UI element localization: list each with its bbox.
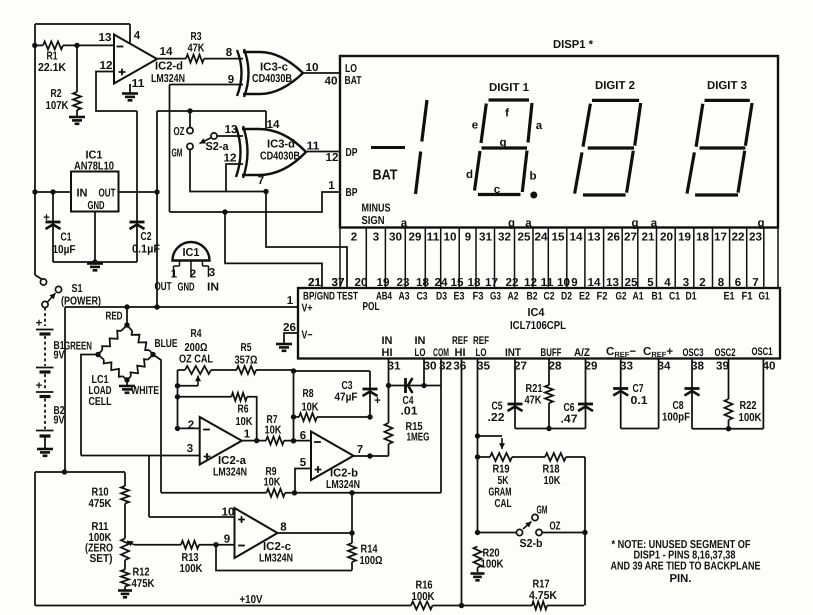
svg-text:27: 27 bbox=[514, 361, 527, 373]
IC4 ICL7106CPL box bbox=[298, 288, 780, 359]
digit 3 seven segment bbox=[687, 100, 752, 195]
wire IC3-d pin 7 to IC4 pin 37 TEST bbox=[266, 192, 347, 290]
svg-text:33: 33 bbox=[620, 361, 633, 373]
svg-text:3: 3 bbox=[209, 267, 215, 279]
svg-text:R3: R3 bbox=[191, 31, 202, 43]
svg-text:30: 30 bbox=[389, 232, 402, 244]
svg-text:7: 7 bbox=[258, 175, 264, 187]
svg-text:CELL: CELL bbox=[89, 396, 112, 408]
svg-text:14: 14 bbox=[588, 277, 602, 289]
svg-text:C2: C2 bbox=[141, 231, 152, 243]
wire IC3-c pin 9 down to BP row bbox=[170, 85, 244, 213]
wire IC4 pin 35 REF LO down to S2-b bbox=[475, 359, 480, 536]
svg-text:13: 13 bbox=[606, 277, 619, 289]
potentiometer R19 5K GRAM CAL bbox=[478, 453, 546, 510]
svg-text:475K: 475K bbox=[89, 498, 113, 510]
resistor R2 107K bbox=[46, 45, 82, 116]
svg-text:f: f bbox=[505, 108, 509, 120]
svg-text:A1: A1 bbox=[633, 291, 644, 303]
digit 1 seven segment bbox=[466, 100, 543, 199]
svg-text:a: a bbox=[536, 120, 543, 132]
resistor R10 475K bbox=[89, 473, 130, 539]
svg-text:10µF: 10µF bbox=[53, 244, 76, 256]
svg-text:CAL: CAL bbox=[495, 498, 512, 510]
svg-text:R6: R6 bbox=[238, 404, 249, 416]
svg-text:10K: 10K bbox=[302, 402, 320, 414]
svg-text:26: 26 bbox=[283, 322, 296, 334]
svg-text:C3: C3 bbox=[417, 291, 428, 303]
DIGIT 1 label bbox=[489, 82, 530, 94]
svg-text:1MEG: 1MEG bbox=[407, 432, 430, 444]
svg-text:c: c bbox=[494, 184, 501, 196]
svg-text:31: 31 bbox=[479, 232, 493, 244]
svg-text:7: 7 bbox=[752, 277, 758, 289]
svg-text:200Ω: 200Ω bbox=[185, 342, 208, 354]
DIGIT 3 label bbox=[707, 80, 747, 92]
svg-text:BP: BP bbox=[346, 187, 358, 199]
battery B2 9V bbox=[36, 374, 65, 448]
svg-text:COM: COM bbox=[433, 347, 449, 359]
svg-text:12: 12 bbox=[326, 152, 339, 164]
ground at R12 bbox=[118, 591, 132, 598]
svg-text:DIGIT 1: DIGIT 1 bbox=[489, 82, 530, 94]
svg-text:DISP1 *: DISP1 * bbox=[553, 39, 593, 51]
svg-text:OSC3: OSC3 bbox=[683, 347, 704, 359]
svg-text:HI: HI bbox=[455, 347, 466, 359]
svg-text:14: 14 bbox=[160, 46, 174, 58]
wire IC2-c output pin 8 bbox=[278, 530, 355, 535]
svg-text:A2: A2 bbox=[508, 291, 519, 303]
wire BLUE down to R9 line bbox=[153, 355, 161, 493]
svg-text:C2: C2 bbox=[544, 291, 555, 303]
svg-text:31: 31 bbox=[388, 361, 402, 373]
svg-text:ICL7106CPL: ICL7106CPL bbox=[510, 320, 566, 332]
IC4 top pin numbers bbox=[308, 277, 759, 289]
svg-text:d: d bbox=[466, 169, 473, 181]
svg-text:a: a bbox=[651, 218, 658, 230]
svg-text:GREEN: GREEN bbox=[64, 341, 92, 353]
svg-text:2: 2 bbox=[699, 277, 705, 289]
svg-text:IN: IN bbox=[382, 335, 393, 347]
svg-text:C1: C1 bbox=[669, 291, 680, 303]
svg-text:OZ: OZ bbox=[174, 126, 185, 138]
display MINUS SIGN note bbox=[362, 203, 391, 228]
svg-text:TEST: TEST bbox=[337, 291, 358, 303]
capacitor C6 .47 on pin 29 bbox=[561, 359, 594, 429]
svg-text:35: 35 bbox=[477, 361, 491, 373]
svg-text:R1: R1 bbox=[47, 51, 58, 63]
svg-text:15: 15 bbox=[552, 232, 566, 244]
svg-text:R12: R12 bbox=[133, 567, 150, 579]
ground at IC1 GND bbox=[53, 212, 137, 271]
display BP input bbox=[346, 187, 358, 199]
resistor R3 47K bbox=[157, 31, 243, 63]
svg-text:23: 23 bbox=[749, 232, 762, 244]
potentiometer R4 200 OZ CAL bbox=[175, 328, 237, 431]
svg-text:D3: D3 bbox=[436, 291, 447, 303]
svg-text:IC2-d: IC2-d bbox=[155, 61, 183, 73]
display to IC4 pin matrix wires bbox=[340, 228, 778, 289]
capacitor C7 0.1 between pins 33 34 bbox=[613, 359, 658, 429]
svg-text:LM324N: LM324N bbox=[326, 479, 360, 491]
svg-text:13: 13 bbox=[225, 124, 238, 136]
svg-text:29: 29 bbox=[585, 361, 598, 373]
resistor R20 100K bbox=[474, 547, 505, 573]
svg-text:e: e bbox=[472, 120, 478, 132]
resistor R15 1MEG bbox=[385, 386, 430, 457]
svg-text:LM324N: LM324N bbox=[259, 553, 293, 565]
svg-text:23: 23 bbox=[397, 277, 410, 289]
svg-text:BAT: BAT bbox=[345, 75, 362, 87]
svg-text:5: 5 bbox=[300, 457, 307, 469]
svg-text:OSC1: OSC1 bbox=[752, 346, 773, 358]
svg-text:475K: 475K bbox=[132, 578, 156, 590]
svg-text:4: 4 bbox=[664, 277, 671, 289]
svg-text:IN: IN bbox=[415, 335, 426, 347]
resistor R9 10K bbox=[161, 466, 295, 497]
wire IC2-c feedback to pin 9 bbox=[216, 545, 352, 571]
switch S2-a with OZ / GM contacts bbox=[172, 111, 230, 160]
resistor R1 22.1K bbox=[32, 41, 114, 74]
svg-text:GM: GM bbox=[172, 148, 183, 160]
svg-text:DP: DP bbox=[346, 147, 358, 159]
svg-text:10K: 10K bbox=[236, 416, 254, 428]
svg-text:27: 27 bbox=[624, 232, 637, 244]
svg-text:IC2-b: IC2-b bbox=[330, 468, 358, 480]
op-amp IC2-a LM324N bbox=[187, 417, 251, 479]
resistor R6 10K feedback bbox=[178, 393, 257, 441]
svg-text:9V: 9V bbox=[54, 415, 65, 427]
wire IC1 OUT vertical riser and OZ net horizontal bbox=[157, 108, 266, 307]
svg-text:11: 11 bbox=[541, 277, 555, 289]
svg-text:R19: R19 bbox=[493, 464, 510, 476]
svg-text:MINUS: MINUS bbox=[362, 203, 391, 215]
wiper tap for R19 bbox=[478, 436, 506, 449]
svg-text:BLUE: BLUE bbox=[155, 338, 178, 350]
svg-text:OZ: OZ bbox=[550, 521, 561, 533]
svg-text:R17: R17 bbox=[533, 579, 550, 591]
svg-text:CD4030B: CD4030B bbox=[252, 73, 292, 85]
op-amp IC2-b LM324N bbox=[300, 430, 363, 491]
svg-text:9: 9 bbox=[465, 232, 471, 244]
svg-text:D2: D2 bbox=[561, 291, 572, 303]
svg-text:B2: B2 bbox=[527, 291, 538, 303]
svg-text:3: 3 bbox=[683, 277, 689, 289]
svg-text:13: 13 bbox=[99, 32, 112, 44]
segment letter marks above pin row bbox=[401, 218, 765, 230]
wire IC2-b output pin 7 bbox=[354, 453, 389, 458]
resistor R7 10K bbox=[242, 414, 311, 445]
IC4 bottom pin numbers bbox=[388, 361, 776, 373]
svg-text:a: a bbox=[525, 218, 532, 230]
wire S2-a pole to IC3-d pin 13 bbox=[217, 124, 243, 136]
svg-text:DIGIT 2: DIGIT 2 bbox=[595, 80, 635, 92]
svg-text:18: 18 bbox=[468, 277, 482, 289]
svg-text:40: 40 bbox=[325, 76, 338, 88]
resistor R12 475K bbox=[121, 567, 155, 591]
svg-text:IN: IN bbox=[207, 282, 219, 294]
svg-text:REF: REF bbox=[452, 335, 468, 347]
svg-text:+: + bbox=[36, 318, 43, 330]
svg-text:26: 26 bbox=[607, 232, 620, 244]
svg-text:SET): SET) bbox=[90, 553, 113, 565]
display BAT annunciator bbox=[373, 168, 398, 184]
svg-text:11: 11 bbox=[427, 232, 441, 244]
svg-text:.01: .01 bbox=[401, 406, 419, 418]
svg-text:32: 32 bbox=[439, 361, 452, 373]
svg-text:47K: 47K bbox=[525, 395, 543, 407]
svg-text:10: 10 bbox=[306, 62, 319, 74]
svg-text:S1: S1 bbox=[72, 283, 83, 295]
svg-text:13: 13 bbox=[588, 232, 601, 244]
svg-text:15: 15 bbox=[451, 277, 465, 289]
svg-text:INT: INT bbox=[505, 347, 521, 359]
svg-text:LM324N: LM324N bbox=[213, 467, 247, 479]
svg-text:OUT: OUT bbox=[99, 188, 116, 200]
svg-text:C8: C8 bbox=[673, 400, 684, 412]
svg-text:IC4: IC4 bbox=[528, 307, 546, 319]
ground at V- bbox=[276, 344, 292, 351]
wire GREEN to IC2-a pin 3 and IC2-c pin 10 bbox=[81, 355, 235, 518]
svg-text:S2-b: S2-b bbox=[520, 538, 543, 550]
capacitor C5 .22 on pin 27 bbox=[488, 359, 523, 429]
switch S1 (POWER) bbox=[35, 275, 101, 308]
wire IC2-b pin 5 to R9 node bbox=[292, 469, 311, 496]
wire IC3-d pin 14 to OZ net bbox=[265, 111, 267, 130]
digit 2 seven segment bbox=[575, 100, 641, 195]
svg-text:R22: R22 bbox=[740, 400, 757, 412]
wire joining C5 R21 C6 bbox=[515, 426, 586, 431]
svg-text:21: 21 bbox=[642, 232, 656, 244]
svg-text:R14: R14 bbox=[361, 544, 378, 556]
wire IC3-c output pin 10 to display LO BAT bbox=[303, 62, 340, 88]
svg-text:14: 14 bbox=[267, 119, 281, 131]
svg-text:1: 1 bbox=[287, 295, 294, 307]
wire S2-b right leg to rail bbox=[584, 533, 586, 606]
svg-text:g: g bbox=[508, 218, 515, 230]
svg-text:IC3-c: IC3-c bbox=[260, 62, 289, 74]
resistor R16 100K label bbox=[412, 580, 436, 604]
wire battery rail to IC1 IN bbox=[32, 189, 71, 194]
wire IC4 pin 36 REF HI down to rail bbox=[461, 359, 463, 606]
svg-text:R2: R2 bbox=[51, 88, 62, 100]
svg-text:GND: GND bbox=[88, 200, 105, 212]
svg-text:18: 18 bbox=[696, 232, 710, 244]
svg-text:357Ω: 357Ω bbox=[235, 355, 258, 367]
svg-text:1: 1 bbox=[171, 269, 178, 281]
svg-text:g: g bbox=[499, 137, 506, 149]
IC1 AN78L10 regulator box bbox=[71, 150, 119, 213]
IC1 TO-92 package bottom view bbox=[155, 242, 220, 294]
resistor R18 10K bbox=[543, 453, 586, 533]
resistor R5 357 bbox=[235, 342, 294, 374]
svg-text:19: 19 bbox=[678, 232, 691, 244]
svg-text:b: b bbox=[529, 171, 536, 183]
capacitor C4 .01 bbox=[386, 378, 441, 418]
svg-text:14: 14 bbox=[570, 232, 584, 244]
svg-text:V−: V− bbox=[302, 330, 313, 342]
svg-text:PIN.: PIN. bbox=[670, 573, 692, 585]
svg-text:BP/GND: BP/GND bbox=[303, 291, 335, 303]
svg-text:18: 18 bbox=[416, 277, 430, 289]
capacitor C1 10uF bbox=[43, 189, 75, 262]
load cell LC1 bridge bbox=[64, 307, 178, 408]
wire GM contact down to IC3-d pin 7 net bbox=[190, 150, 269, 195]
ground at IC2-d pin 11 bbox=[122, 84, 138, 100]
svg-text:100K: 100K bbox=[481, 559, 505, 571]
wire IC3-d pin 12 bbox=[224, 153, 244, 192]
svg-text:A/Z: A/Z bbox=[574, 347, 590, 359]
wire IC4 pin 30 IN LO bbox=[423, 359, 425, 386]
svg-text:LM324N: LM324N bbox=[151, 73, 185, 85]
svg-text:R4: R4 bbox=[191, 328, 202, 340]
svg-text:36: 36 bbox=[453, 361, 466, 373]
svg-text:IC2-a: IC2-a bbox=[218, 455, 247, 467]
capacitor C2 0.1uF bbox=[130, 111, 161, 262]
wire joining C8 R22 pin 40 bbox=[692, 359, 763, 432]
svg-text:DIGIT 3: DIGIT 3 bbox=[707, 80, 747, 92]
svg-text:22: 22 bbox=[732, 232, 745, 244]
svg-text:LO: LO bbox=[476, 347, 487, 359]
svg-text:4: 4 bbox=[134, 30, 141, 42]
svg-text:47K: 47K bbox=[188, 43, 206, 55]
XOR gate IC3-c CD4030B bbox=[226, 47, 303, 97]
wire BP net: display BP to IC4 pin 21 bbox=[170, 180, 341, 289]
wire top feedback loop from R1 left node to IC2-d pin 4 bbox=[35, 24, 130, 275]
svg-text:WHITE: WHITE bbox=[131, 385, 159, 397]
svg-text:30: 30 bbox=[424, 361, 437, 373]
wire IC1 OUT bbox=[119, 189, 160, 194]
display DP input bbox=[346, 147, 358, 159]
svg-text:40: 40 bbox=[763, 361, 776, 373]
wire V+ rail to IC4 pin 1 bbox=[65, 295, 298, 310]
minus sign segment bbox=[371, 146, 405, 149]
svg-text:100K: 100K bbox=[739, 412, 763, 424]
svg-text:22: 22 bbox=[506, 277, 519, 289]
svg-text:E1: E1 bbox=[724, 291, 735, 303]
svg-text:R5: R5 bbox=[241, 342, 252, 354]
svg-text:g: g bbox=[757, 218, 764, 230]
svg-text:1: 1 bbox=[328, 180, 335, 192]
ground at battery bbox=[37, 449, 53, 456]
svg-text:A3: A3 bbox=[399, 291, 410, 303]
svg-text:28: 28 bbox=[549, 361, 563, 373]
svg-text:24: 24 bbox=[535, 232, 549, 244]
wire IC2-a pin 2 bbox=[178, 420, 200, 432]
svg-text:25: 25 bbox=[518, 232, 532, 244]
IC4 top edge labels bbox=[303, 291, 770, 314]
svg-text:10: 10 bbox=[557, 277, 570, 289]
svg-text:10K: 10K bbox=[265, 425, 283, 437]
svg-text:R16: R16 bbox=[416, 580, 433, 592]
svg-text:0.1: 0.1 bbox=[631, 395, 649, 407]
svg-text:3: 3 bbox=[187, 443, 193, 455]
svg-text:G3: G3 bbox=[490, 291, 501, 303]
svg-text:100K: 100K bbox=[180, 563, 204, 575]
svg-text:+10V: +10V bbox=[240, 594, 263, 606]
wire V- IC4 pin 26 bbox=[283, 322, 298, 343]
resistor R13 100K bbox=[134, 541, 235, 575]
svg-text:G2: G2 bbox=[616, 291, 627, 303]
display DISP1 box bbox=[340, 39, 778, 228]
svg-text:8: 8 bbox=[226, 47, 233, 59]
svg-text:8: 8 bbox=[718, 277, 725, 289]
resistor R8 10K feedback bbox=[291, 368, 373, 441]
battery B1 9V bbox=[36, 308, 65, 373]
svg-text:REF: REF bbox=[473, 335, 489, 347]
svg-text:11: 11 bbox=[132, 78, 146, 90]
svg-text:IC3-d: IC3-d bbox=[267, 139, 295, 151]
svg-text:10: 10 bbox=[222, 507, 235, 519]
svg-text:17: 17 bbox=[714, 232, 727, 244]
svg-text:LO: LO bbox=[345, 63, 357, 75]
svg-text:37: 37 bbox=[332, 277, 345, 289]
svg-text:S2-a: S2-a bbox=[206, 141, 230, 153]
op-amp IC2-c LM324N bbox=[222, 507, 294, 565]
display pin numbers bbox=[351, 232, 762, 244]
svg-text:25: 25 bbox=[625, 277, 639, 289]
ground at R2 bbox=[69, 117, 85, 124]
svg-text:D1: D1 bbox=[686, 291, 697, 303]
svg-text:17: 17 bbox=[485, 277, 498, 289]
capacitor C3 47uF bbox=[294, 371, 382, 417]
svg-text:OZ CAL: OZ CAL bbox=[179, 354, 213, 366]
svg-text:R10: R10 bbox=[92, 487, 109, 499]
svg-text:0.1µF: 0.1µF bbox=[132, 244, 160, 256]
svg-text:12: 12 bbox=[224, 153, 237, 165]
svg-text:2: 2 bbox=[188, 420, 194, 432]
DIGIT 2 label bbox=[595, 80, 635, 92]
resistor R22 100K on pin 39 bbox=[725, 359, 763, 429]
svg-text:100K: 100K bbox=[412, 591, 436, 603]
svg-text:4.75K: 4.75K bbox=[529, 590, 558, 602]
svg-text:6: 6 bbox=[300, 430, 306, 442]
wire left supply loop bbox=[35, 307, 125, 606]
svg-text:SIGN: SIGN bbox=[362, 215, 385, 227]
svg-text:8: 8 bbox=[280, 522, 287, 534]
svg-text:g: g bbox=[631, 218, 638, 230]
potentiometer R11 100K ZERO SET bbox=[85, 521, 134, 570]
svg-text:OUT: OUT bbox=[155, 281, 172, 293]
svg-text:38: 38 bbox=[691, 361, 705, 373]
svg-text:+: + bbox=[374, 395, 381, 407]
svg-text:9: 9 bbox=[571, 277, 577, 289]
svg-text:100pF: 100pF bbox=[662, 412, 690, 424]
svg-text:6: 6 bbox=[735, 277, 741, 289]
svg-text:1: 1 bbox=[244, 429, 251, 441]
svg-text:E3: E3 bbox=[454, 291, 465, 303]
svg-text:RED: RED bbox=[106, 311, 123, 323]
svg-text:47µF: 47µF bbox=[335, 392, 358, 404]
svg-text:GM: GM bbox=[537, 505, 548, 517]
wire IC4 pin 32 COM down to R9 line bbox=[295, 359, 442, 496]
svg-text:11: 11 bbox=[307, 141, 321, 153]
svg-text:G1: G1 bbox=[759, 291, 770, 303]
resistor R14 100 bbox=[348, 493, 383, 571]
svg-text:C1: C1 bbox=[61, 232, 72, 244]
svg-text:12: 12 bbox=[524, 277, 537, 289]
svg-text:39: 39 bbox=[716, 361, 729, 373]
svg-text:a: a bbox=[401, 218, 408, 230]
XOR gate IC3-d CD4030B bbox=[236, 119, 306, 187]
svg-text:POL: POL bbox=[363, 301, 380, 313]
svg-text:3: 3 bbox=[373, 232, 379, 244]
svg-text:AND 39 ARE TIED TO BACKPLANE: AND 39 ARE TIED TO BACKPLANE bbox=[611, 561, 761, 573]
svg-text:2: 2 bbox=[190, 269, 196, 281]
svg-text:GND: GND bbox=[178, 282, 195, 294]
svg-text:107K: 107K bbox=[46, 100, 70, 112]
svg-text:C6: C6 bbox=[564, 402, 575, 414]
